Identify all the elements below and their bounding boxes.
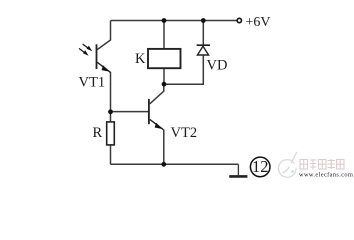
node junction top relay bbox=[162, 18, 167, 23]
phototransistor VT1 bbox=[97, 44, 111, 72]
wire VT1 collector riser bbox=[97, 21, 110, 50]
light arrow 2 bbox=[79, 48, 89, 55]
wire VT2 emitter drop bbox=[163, 129, 165, 164]
wire diode bottom bbox=[164, 55, 203, 84]
svg-text:+6V: +6V bbox=[246, 15, 271, 30]
node junction emitter/base/R bbox=[108, 109, 113, 114]
wire VT1 emitter drop bbox=[110, 72, 112, 112]
wire VT2 collector riser bbox=[150, 84, 164, 104]
svg-text:12: 12 bbox=[252, 157, 269, 176]
transistor VT2 bbox=[149, 99, 164, 130]
wire resistor top bbox=[110, 112, 112, 122]
terminal +6V bbox=[237, 18, 241, 22]
wire resistor bottom bbox=[110, 145, 112, 164]
wire diode top bbox=[202, 21, 204, 46]
wire VT2 base bbox=[111, 111, 149, 113]
svg-text:VD: VD bbox=[207, 58, 228, 74]
svg-text:R: R bbox=[93, 125, 103, 141]
ground bbox=[229, 164, 247, 176]
svg-text:VT1: VT1 bbox=[79, 75, 106, 91]
svg-text:K: K bbox=[135, 51, 146, 67]
wire relay bottom bbox=[163, 68, 165, 84]
diode VD bbox=[197, 45, 210, 55]
wire relay top bbox=[163, 21, 165, 49]
wire top rail bbox=[111, 20, 237, 22]
circled number 12 bbox=[250, 157, 270, 177]
svg-text:www.elecfans.com: www.elecfans.com bbox=[299, 172, 353, 179]
node junction relay/diode bottom bbox=[162, 82, 167, 87]
svg-text:VT2: VT2 bbox=[171, 125, 198, 141]
wire bottom rail bbox=[111, 163, 239, 165]
node junction bottom rail bbox=[161, 162, 166, 167]
resistor R bbox=[107, 122, 115, 145]
node junction top diode bbox=[201, 18, 206, 23]
light arrow 1 bbox=[83, 44, 93, 51]
relay coil K bbox=[148, 49, 181, 68]
